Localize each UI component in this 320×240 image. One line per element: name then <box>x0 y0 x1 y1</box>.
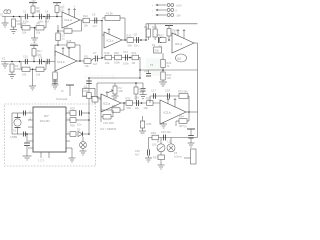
svg-text:K3: K3 <box>174 151 178 155</box>
rail y83 <box>97 83 143 98</box>
svg-text:R19: R19 <box>105 51 110 55</box>
svg-text:100n: 100n <box>83 89 89 93</box>
wire IC2b out <box>186 111 198 113</box>
ground jack sleeve <box>2 17 9 28</box>
feedback loop IC2b <box>150 96 189 112</box>
capacitor C4 <box>45 10 49 20</box>
svg-text:1 2 3: 1 2 3 <box>38 159 44 163</box>
capacitor C12 <box>47 59 49 64</box>
svg-text:R30: R30 <box>126 97 131 101</box>
LED D2 <box>80 137 87 148</box>
svg-text:R20: R20 <box>114 51 119 55</box>
+supply T ch1 <box>29 0 37 3</box>
svg-text:P2: P2 <box>152 43 156 47</box>
wire IC2a out <box>121 102 160 104</box>
svg-text:R21: R21 <box>132 51 137 55</box>
svg-text:IC2,b: IC2,b <box>164 111 172 115</box>
svg-text:100n: 100n <box>38 20 44 24</box>
node A <box>19 16 21 18</box>
feedback wire IC1b <box>55 45 80 61</box>
svg-text:10n: 10n <box>77 123 82 127</box>
svg-text:+15V: +15V <box>31 42 37 45</box>
svg-text:10k: 10k <box>144 106 149 110</box>
svg-text:560: 560 <box>128 43 133 47</box>
capacitor C18 <box>165 89 170 99</box>
dashed enclosure <box>5 104 96 166</box>
capacitor C11 <box>38 55 43 65</box>
svg-text:IC2 = NE5532: IC2 = NE5532 <box>100 127 117 131</box>
svg-text:R31: R31 <box>146 97 151 101</box>
svg-text:C18: C18 <box>165 89 170 93</box>
resistor R25 <box>70 107 76 116</box>
ground filter ch2 <box>29 69 36 90</box>
wire mixer to lower rail <box>89 58 198 79</box>
resistor R18 feedback <box>67 39 76 47</box>
IC7 MK1453 <box>33 107 66 152</box>
svg-text:IC1,b: IC1,b <box>58 60 66 64</box>
ground divider <box>159 82 167 86</box>
svg-text:R36: R36 <box>151 131 156 135</box>
svg-text:100: 100 <box>167 76 172 80</box>
svg-text:R8: R8 <box>65 25 69 29</box>
bus wire <box>88 77 90 134</box>
svg-text:10u: 10u <box>135 106 140 110</box>
node G <box>43 61 45 63</box>
resistor R16 from +rail <box>165 26 177 41</box>
resistor R11 <box>84 55 91 68</box>
resistor R5 from +rail <box>53 3 64 18</box>
bias rail top <box>145 24 197 41</box>
svg-text:100n: 100n <box>123 61 129 65</box>
wire mix bus <box>101 21 103 59</box>
resistor R19 <box>105 51 112 60</box>
op-amp IC1b <box>55 48 77 71</box>
wire into IC2a <box>97 97 101 99</box>
svg-text:C10: C10 <box>23 55 28 59</box>
node IC1c out <box>124 39 126 41</box>
trimmer label box <box>152 43 162 53</box>
capacitor C25 <box>188 136 194 144</box>
switch S1 <box>83 85 96 97</box>
svg-text:-: - <box>152 15 153 18</box>
filter network ch2 <box>21 62 46 77</box>
supply terminal 0 <box>152 9 178 13</box>
IC7 pin 12 down <box>69 148 76 162</box>
capacitor C22 <box>24 132 26 137</box>
svg-text:P1 5k: P1 5k <box>106 11 113 15</box>
svg-text:10u: 10u <box>134 44 139 48</box>
capacitor C14 <box>144 69 151 76</box>
op-amp IC1d <box>172 30 194 53</box>
svg-text:R25: R25 <box>70 107 75 111</box>
svg-text:C14: C14 <box>144 69 149 73</box>
svg-text:R38: R38 <box>82 94 87 98</box>
wire IC1b out <box>77 58 102 62</box>
capacitor C20 labels <box>135 138 149 157</box>
supply terminal -15V <box>152 14 181 18</box>
svg-text:C1: C1 <box>23 10 27 14</box>
node F <box>33 61 35 63</box>
gain network IC1a: C5 to node <box>56 30 66 46</box>
node B <box>32 16 34 18</box>
crystal load caps chain <box>23 133 32 160</box>
wire IC1c out <box>122 39 146 41</box>
svg-text:C7: C7 <box>93 51 97 55</box>
svg-text:10k: 10k <box>22 31 27 35</box>
capacitor C17 <box>151 89 156 99</box>
svg-text:C16 100n: C16 100n <box>103 121 115 125</box>
resistor R38 on bus <box>82 93 91 99</box>
svg-text:50k: 50k <box>155 49 160 53</box>
divider chain R22 R23 <box>161 53 172 82</box>
capacitor C8 <box>134 32 139 47</box>
crystal X1 loop <box>12 113 28 134</box>
svg-text:R11: R11 <box>84 55 89 59</box>
ground R1 <box>10 27 17 34</box>
capacitor C2 <box>37 10 42 20</box>
input jack K1 <box>0 10 10 17</box>
resistor R20 <box>114 51 122 64</box>
resistor R13 divider <box>144 24 150 40</box>
crystal X1 <box>13 113 21 134</box>
node J <box>141 102 143 104</box>
resistor R31 <box>146 97 153 106</box>
resistor R14 divider <box>152 24 157 40</box>
svg-text:4u7: 4u7 <box>93 24 98 28</box>
svg-text:10k: 10k <box>22 73 27 77</box>
IC7 right pins <box>66 113 70 148</box>
resistor R4a <box>21 22 30 35</box>
svg-text:M: M <box>157 140 159 144</box>
svg-text:IC7: IC7 <box>44 114 49 118</box>
resistor R3 to +rail <box>31 3 40 17</box>
svg-text:K2: K2 <box>2 57 6 61</box>
svg-text:R13: R13 <box>144 25 149 29</box>
wire IC1d out to right edge <box>194 43 198 138</box>
svg-text:R33 56k: R33 56k <box>178 90 188 94</box>
svg-text:R15: R15 <box>159 34 164 38</box>
svg-text:R10: R10 <box>83 14 88 18</box>
capacitor C7 <box>93 51 98 66</box>
resistor R10 out <box>83 14 90 27</box>
extra value labels <box>10 20 184 147</box>
ground LED <box>80 148 87 155</box>
op-amp IC2b <box>160 99 186 124</box>
node H <box>129 57 131 59</box>
resistor R4b <box>30 17 46 35</box>
feedback IC2a <box>101 94 124 125</box>
svg-text:R12: R12 <box>127 34 132 38</box>
node mix2 <box>101 57 103 59</box>
svg-text:IC1,a: IC1,a <box>65 18 73 22</box>
svg-text:K1: K1 <box>0 13 4 17</box>
svg-text:1M: 1M <box>37 52 41 56</box>
IC7 bottom stubs <box>38 152 49 163</box>
node mix <box>101 20 103 22</box>
resistor R27 <box>70 132 76 137</box>
supply T touchpad <box>61 85 74 96</box>
filter network ch1: left leg wire <box>20 17 22 28</box>
svg-text:R32: R32 <box>112 104 117 108</box>
ground C25 <box>188 143 195 147</box>
node I <box>123 102 125 104</box>
svg-text:C6: C6 <box>92 13 96 17</box>
svg-text:C13: C13 <box>123 50 128 54</box>
bottom wire <box>148 137 197 139</box>
svg-text:1M: 1M <box>132 61 136 65</box>
resistor R8 feedback <box>64 25 72 33</box>
svg-text:9V: 9V <box>61 90 64 93</box>
svg-text:9V: 9V <box>184 126 187 129</box>
resistor R34 <box>176 112 189 126</box>
capacitor C21 <box>24 111 26 116</box>
ground meter <box>158 160 165 169</box>
svg-text:C19 10u: C19 10u <box>161 130 171 134</box>
svg-text:100k: 100k <box>15 67 21 71</box>
diode D1 <box>77 128 90 137</box>
gain network IC1b <box>52 71 59 89</box>
svg-text:560: 560 <box>127 106 132 110</box>
svg-text:6,3mm: 6,3mm <box>174 155 182 159</box>
svg-text:C15: C15 <box>134 96 139 100</box>
wire ch1 main <box>2 16 62 18</box>
resistor R24 <box>92 97 104 105</box>
svg-text:C9: C9 <box>156 33 160 37</box>
ground R2 <box>9 72 16 79</box>
svg-text:10k: 10k <box>105 61 110 65</box>
svg-text:-15V: -15V <box>176 14 182 18</box>
op-amp IC1c summing <box>102 29 122 48</box>
resistor R12 <box>127 34 134 43</box>
resistor R2 <box>10 61 21 72</box>
capacitor C23 <box>79 110 89 115</box>
ground IC2b plus input <box>160 122 167 128</box>
supply terminal +15V <box>152 4 182 8</box>
svg-text:R37: R37 <box>153 156 158 160</box>
svg-text:10k: 10k <box>36 31 41 35</box>
headphone jack K3 <box>174 149 196 164</box>
svg-text:C17: C17 <box>151 89 156 93</box>
svg-text:4u7: 4u7 <box>45 20 50 24</box>
svg-text:P3: P3 <box>150 63 154 67</box>
svg-text:56k: 56k <box>140 90 145 94</box>
feedback wire IC1a <box>58 20 82 31</box>
svg-text:4R7: 4R7 <box>179 124 184 128</box>
svg-text:X1: X1 <box>13 129 17 133</box>
resistor R29 above <box>134 82 145 100</box>
resistor R33 <box>178 90 188 99</box>
svg-text:R4: R4 <box>23 22 27 26</box>
svg-text:C20: C20 <box>135 149 140 153</box>
resistor R1 <box>12 16 23 27</box>
resistor R30 <box>126 97 133 106</box>
svg-text:fig2: fig2 <box>177 57 182 61</box>
svg-text:4u7: 4u7 <box>135 153 140 157</box>
node D <box>140 39 142 41</box>
svg-text:10k: 10k <box>85 64 90 68</box>
svg-text:IC1,c: IC1,c <box>107 39 115 43</box>
node E <box>19 61 21 63</box>
svg-text:+15V: +15V <box>176 4 182 8</box>
ground bottom left <box>145 156 152 163</box>
supply T right <box>184 126 195 136</box>
wire ch2 main <box>1 61 55 63</box>
svg-text:+15V: +15V <box>30 0 36 3</box>
ground filter ch1 <box>31 27 38 42</box>
resistor R17 to +rail <box>32 45 42 61</box>
svg-text:R18: R18 <box>67 39 72 43</box>
capacitor C24 on bus <box>83 81 92 93</box>
svg-text:R34: R34 <box>179 115 184 119</box>
watermark <box>84 58 164 81</box>
svg-text:10k: 10k <box>36 73 41 77</box>
svg-text:MK1453: MK1453 <box>40 119 50 123</box>
resistor R15 <box>159 34 166 43</box>
resistor R36 <box>151 131 159 140</box>
capacitor C1 <box>23 10 29 24</box>
op-amp IC1a <box>62 6 80 28</box>
svg-text:R17: R17 <box>37 49 42 53</box>
svg-text:R35: R35 <box>147 122 152 126</box>
svg-text:IC2,a: IC2,a <box>103 102 111 106</box>
svg-text:R26: R26 <box>70 124 75 128</box>
svg-text:C4: C4 <box>45 10 49 14</box>
capacitor C6 <box>92 13 97 29</box>
resistor R21 <box>132 51 139 60</box>
svg-text:R14: R14 <box>152 25 157 29</box>
svg-text:C2: C2 <box>37 10 41 14</box>
svg-text:10k: 10k <box>119 89 124 93</box>
IC7 left pins <box>28 113 33 148</box>
ground ch2 left <box>2 62 9 69</box>
capacitor C13 <box>123 50 128 60</box>
meter M1 <box>157 138 165 152</box>
capacitor C19 <box>161 130 171 140</box>
oval note <box>176 54 187 62</box>
svg-text:100k: 100k <box>114 60 120 64</box>
resistor R37 <box>153 152 165 160</box>
potentiometer P2 <box>108 83 123 100</box>
capacitor C26 end of rail <box>140 83 147 99</box>
svg-text:4u7: 4u7 <box>93 62 98 66</box>
mixer row wire <box>102 57 140 59</box>
speaker LS1 <box>167 138 175 152</box>
svg-text:3,58M: 3,58M <box>10 135 17 139</box>
svg-text:IC1,d: IC1,d <box>175 42 183 46</box>
capacitor C15 <box>134 96 139 106</box>
svg-text:D1: D1 <box>77 128 81 132</box>
capacitor C9 <box>159 37 161 43</box>
capacitor C10 <box>23 55 28 65</box>
RC to ground mid <box>139 116 152 135</box>
svg-text:C8: C8 <box>134 32 138 36</box>
pot P1 loop <box>102 11 125 40</box>
op-amp IC2a <box>101 92 121 112</box>
wire IC1a out <box>80 19 102 22</box>
svg-text:Touchpad: Touchpad <box>56 97 68 101</box>
svg-text:LS: LS <box>168 140 171 144</box>
+supply T ch2 <box>30 42 38 45</box>
svg-text:10k: 10k <box>84 23 89 27</box>
resistor R26 <box>70 118 90 128</box>
node IC2b out <box>188 111 190 113</box>
node C <box>43 16 45 18</box>
